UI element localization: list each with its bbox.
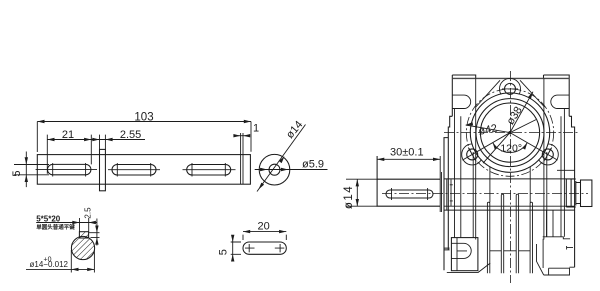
key spec leader line bbox=[36, 218, 97, 232]
bolt circle dash-dot bbox=[466, 89, 553, 176]
top bolt tick bbox=[502, 88, 518, 90]
lobe tangent left bbox=[476, 80, 500, 107]
o5.9 arrows bbox=[260, 168, 267, 171]
right foot tick bbox=[567, 246, 573, 250]
cooling fin 2 bbox=[501, 194, 503, 273]
left foot notch + D arc bbox=[451, 243, 471, 258]
ray short up-right bbox=[510, 120, 536, 133]
flange centerline vertical bbox=[509, 71, 511, 283]
o42 arrow bbox=[465, 122, 473, 127]
right wall steps bbox=[569, 116, 574, 267]
svg-text:103: 103 bbox=[134, 111, 153, 123]
left foot bbox=[451, 238, 478, 271]
dim21 arrows bbox=[47, 138, 54, 141]
svg-text:30±0.1: 30±0.1 bbox=[390, 147, 424, 159]
dim 1 right bbox=[234, 135, 249, 137]
dim2.5 arrows bbox=[95, 226, 98, 233]
slot3 arc-center ticks bbox=[192, 163, 225, 177]
collar ring bbox=[100, 149, 106, 190]
flange centerline horizontal bbox=[444, 131, 580, 133]
key end center marks bbox=[245, 244, 284, 252]
o38 arrow bbox=[528, 91, 535, 99]
key outline bbox=[243, 242, 286, 254]
dim103 arrows bbox=[37, 120, 44, 123]
top bolt lobe bbox=[500, 78, 521, 99]
output shaft end cap bbox=[581, 180, 592, 207]
key spec arrows bbox=[72, 221, 79, 224]
input bearing boss verticals bbox=[447, 179, 453, 210]
left foot inner vertical bbox=[456, 238, 458, 271]
svg-text:120°: 120° bbox=[500, 143, 522, 155]
circlip groove right end bbox=[241, 133, 243, 184]
slot1 centerline bbox=[36, 169, 97, 171]
right wall inner verticals bbox=[544, 78, 565, 239]
shaft centerline horizontal bbox=[382, 192, 588, 194]
o14 diagonal leader bbox=[257, 125, 306, 192]
output shaft neck bbox=[576, 183, 581, 204]
dim 30+-0.1 bbox=[377, 156, 441, 212]
o5.9 leader horizontal bbox=[255, 169, 328, 171]
svg-text:+0: +0 bbox=[44, 257, 52, 264]
top tabs bbox=[452, 75, 475, 116]
right foot pad bbox=[544, 267, 575, 275]
left C-slot pocket bbox=[452, 95, 470, 108]
section circle bbox=[71, 236, 94, 259]
right foot outline bbox=[543, 237, 570, 239]
svg-text:ø5.9: ø5.9 bbox=[302, 158, 324, 170]
svg-text:5*5*20: 5*5*20 bbox=[36, 214, 61, 223]
slot2 arc-center ticks bbox=[117, 163, 150, 177]
left foot base plate bbox=[447, 263, 490, 273]
right foot diagonal bbox=[537, 239, 544, 275]
slot3 centerline bbox=[183, 169, 236, 171]
svg-text:1: 1 bbox=[253, 123, 259, 135]
key5 arrows bbox=[231, 235, 234, 242]
o14 tol arrows bbox=[71, 268, 78, 271]
lower-left bolt lobe bbox=[462, 144, 483, 165]
cooling fin 3 bbox=[516, 194, 518, 273]
svg-text:2.5: 2.5 bbox=[84, 207, 93, 219]
lobe tangent right bbox=[520, 80, 545, 107]
dim o14 tolerance bbox=[26, 250, 94, 273]
dim o14 input bbox=[346, 179, 377, 206]
lower-right bolt lobe bbox=[537, 144, 558, 165]
svg-text:ø42: ø42 bbox=[477, 122, 498, 137]
ray o42 leader bbox=[466, 125, 510, 133]
120 deg arc bbox=[493, 143, 528, 153]
flange outer circle bbox=[470, 93, 549, 172]
slot1 arc-center ticks bbox=[53, 163, 86, 177]
dim 2.5 bbox=[89, 219, 100, 246]
top edge line bbox=[452, 77, 569, 79]
dim 5 left bbox=[14, 152, 49, 188]
body band lines bbox=[444, 178, 575, 180]
input shaft keyway slot bbox=[386, 190, 433, 198]
lower-right bolt tick bbox=[544, 148, 552, 162]
center dot bbox=[508, 131, 511, 134]
svg-text:2.55: 2.55 bbox=[120, 129, 141, 141]
svg-text:5: 5 bbox=[218, 249, 230, 255]
lower-left bolt hole bbox=[467, 149, 478, 160]
o14 diag arrows bbox=[279, 155, 286, 163]
svg-text:20: 20 bbox=[257, 221, 269, 233]
dim1 arrows bbox=[233, 134, 240, 137]
right C-slot pocket bbox=[551, 95, 569, 108]
slot2 centerline bbox=[108, 169, 160, 171]
ray to lower-right bolt bbox=[510, 133, 558, 161]
dim2.55 arrows bbox=[92, 138, 99, 141]
dim 21 bbox=[47, 135, 91, 174]
svg-text:ø14: ø14 bbox=[343, 185, 355, 209]
output shaft right boss bbox=[566, 179, 576, 207]
dim 103 bbox=[37, 122, 251, 153]
right boss verticals bbox=[547, 210, 554, 237]
cooling fin 4 bbox=[530, 202, 532, 273]
housing silhouette verticals bbox=[473, 152, 547, 238]
web line between fins bbox=[490, 250, 530, 252]
keyway slot 2 bbox=[112, 165, 156, 176]
flange middle circle bbox=[476, 99, 544, 167]
right step line bbox=[557, 169, 575, 171]
dim 20 bbox=[243, 232, 286, 240]
keyway slot 3 bbox=[187, 165, 231, 176]
120 arc arrows bbox=[491, 142, 498, 150]
svg-text:5: 5 bbox=[11, 171, 23, 177]
svg-text:21: 21 bbox=[62, 129, 74, 141]
input shaft rect bbox=[377, 156, 440, 207]
dim30 arrows bbox=[377, 158, 384, 161]
svg-text:单圆头普通平键: 单圆头普通平键 bbox=[36, 223, 75, 231]
svg-text:ø14: ø14 bbox=[284, 119, 305, 141]
svg-text:ø38: ø38 bbox=[505, 105, 525, 127]
left wall inner verticals bbox=[455, 78, 476, 239]
cooling fin 1 bbox=[487, 202, 489, 273]
inner circle o5.9 bbox=[269, 164, 280, 175]
input slot center ticks bbox=[392, 188, 428, 200]
dim 2.55 bbox=[91, 135, 145, 150]
ray short down-left bbox=[483, 133, 510, 164]
top bolt hole bbox=[505, 83, 516, 94]
left wall steps bbox=[444, 116, 452, 270]
lower-right bolt hole bbox=[542, 149, 553, 160]
lower-left bolt tick bbox=[468, 148, 476, 162]
keyway slot 1 bbox=[48, 164, 91, 174]
section keyway bbox=[79, 232, 88, 238]
ray to lower-left bolt bbox=[462, 133, 510, 161]
ray o38 leader bbox=[510, 92, 533, 133]
dim 5 key bbox=[231, 237, 241, 260]
dim5 arrows bbox=[25, 157, 28, 164]
outer circle o14 bbox=[259, 154, 290, 185]
key20 arrows bbox=[243, 230, 250, 233]
o14 input arrows bbox=[356, 179, 359, 186]
shaft body outline bbox=[37, 155, 250, 185]
flange inner circle bbox=[480, 103, 539, 162]
